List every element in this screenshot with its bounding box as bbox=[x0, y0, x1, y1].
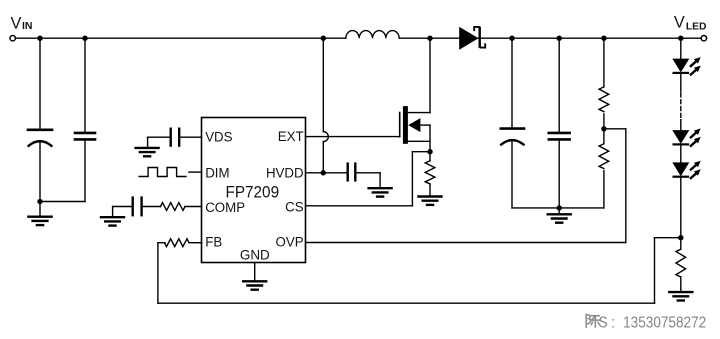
svg-text:FB: FB bbox=[205, 234, 222, 249]
svg-text:GND: GND bbox=[240, 246, 270, 262]
svg-text:VDS: VDS bbox=[205, 129, 232, 144]
svg-text:V: V bbox=[11, 15, 22, 33]
svg-text:HVDD: HVDD bbox=[266, 165, 304, 180]
svg-text:S: S bbox=[599, 315, 608, 332]
svg-text:DIM: DIM bbox=[205, 165, 229, 180]
svg-text:CS: CS bbox=[285, 199, 303, 214]
svg-text:LED: LED bbox=[686, 21, 707, 32]
svg-text:COMP: COMP bbox=[205, 200, 245, 215]
svg-text:13530758272: 13530758272 bbox=[623, 315, 706, 332]
svg-text:EXT: EXT bbox=[278, 129, 304, 144]
svg-text:IN: IN bbox=[22, 20, 33, 32]
svg-text:FP7209: FP7209 bbox=[226, 183, 280, 202]
svg-text:OVP: OVP bbox=[276, 234, 304, 249]
svg-text::: : bbox=[611, 315, 615, 332]
svg-text:V: V bbox=[674, 14, 685, 32]
